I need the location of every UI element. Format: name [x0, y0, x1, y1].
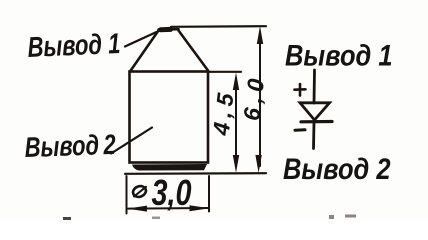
diode symbol bottom lead: [312, 122, 315, 149]
svg-text:6,0: 6,0: [238, 72, 270, 122]
lead 1 stub blob: [161, 27, 171, 32]
package cone top right slope: [179, 31, 209, 71]
arrow dia3 left: [127, 206, 147, 212]
arrow dia3 right: [190, 205, 210, 211]
shoulder extension line: [208, 71, 241, 73]
extension line left of dia 3,0: [126, 176, 128, 214]
dimension line dia 3,0: [128, 207, 209, 210]
svg-text:Вывод 2: Вывод 2: [283, 152, 391, 185]
diode symbol top lead: [313, 70, 316, 103]
leader line to lead 2 label: [111, 128, 152, 154]
arrow 4,5 top: [233, 73, 239, 91]
diameter symbol of dia 3,0: [132, 184, 148, 198]
diode symbol cathode bar: [301, 120, 332, 124]
diode symbol triangle: [300, 103, 330, 120]
arrow 6,0 bottom: [255, 155, 261, 173]
dimension line 4,5: [235, 80, 237, 166]
svg-text:Вывод 1: Вывод 1: [285, 39, 393, 72]
svg-text:Вывод 1: Вывод 1: [27, 28, 121, 63]
package cone top left slope: [130, 31, 159, 72]
package bottom band: [132, 164, 207, 171]
package body rectangle: [130, 72, 209, 163]
bottom extension line: [125, 172, 266, 175]
dimension line 6,0: [259, 33, 261, 166]
svg-text:3,0: 3,0: [152, 172, 192, 213]
minus sign: [295, 128, 305, 131]
arrow 4,5 bottom: [233, 155, 239, 173]
top extension line: [171, 25, 266, 28]
package apex flat top: [159, 28, 179, 31]
cut-off caption remnants at bottom edge: [63, 215, 356, 221]
extension line right of dia 3,0: [208, 176, 210, 212]
arrow 6,0 top: [257, 26, 263, 44]
svg-text:4,5: 4,5: [208, 87, 240, 138]
svg-text:Вывод 2: Вывод 2: [24, 129, 116, 163]
leader line to lead 1 label: [125, 32, 157, 47]
plus sign: [295, 84, 306, 96]
